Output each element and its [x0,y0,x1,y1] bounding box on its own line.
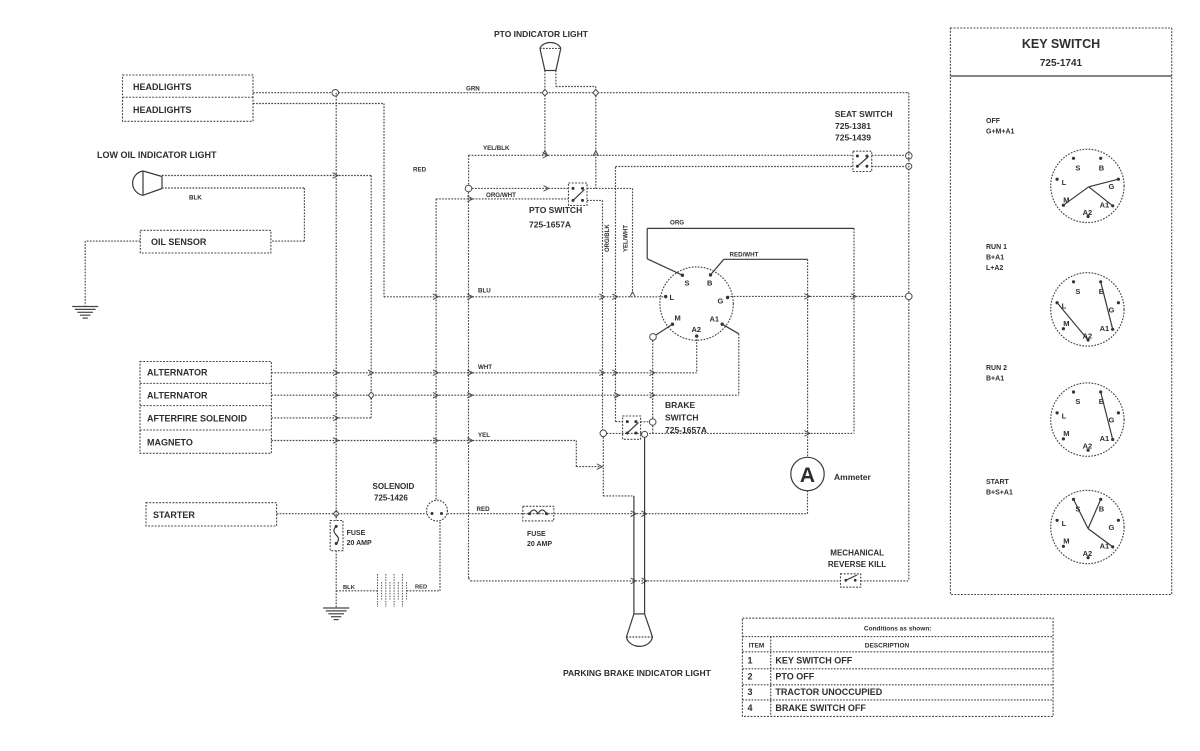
svg-text:M: M [675,314,681,323]
svg-text:GRN: GRN [466,86,480,93]
svg-text:S: S [685,279,690,288]
svg-text:ORG: ORG [670,220,684,227]
svg-text:3: 3 [747,687,752,697]
svg-text:B+S+A1: B+S+A1 [986,490,1013,497]
svg-text:MAGNETO: MAGNETO [147,438,193,448]
svg-text:PARKING BRAKE INDICATOR LIGHT: PARKING BRAKE INDICATOR LIGHT [563,668,712,678]
svg-text:ALTERNATOR: ALTERNATOR [147,391,208,401]
svg-text:RED/WHT: RED/WHT [730,252,759,259]
svg-text:B+A1: B+A1 [986,255,1004,262]
svg-text:G: G [718,297,724,306]
svg-text:FUSE: FUSE [347,530,366,537]
svg-text:PTO SWITCH: PTO SWITCH [529,205,582,215]
svg-text:DESCRIPTION: DESCRIPTION [865,643,910,650]
svg-text:S: S [1075,163,1080,172]
svg-text:725-1439: 725-1439 [835,133,871,143]
svg-text:L+A2: L+A2 [986,265,1003,272]
svg-text:G: G [1108,416,1114,425]
svg-text:MECHANICAL: MECHANICAL [830,549,884,558]
svg-text:Conditions as shown:: Conditions as shown: [864,626,932,633]
svg-text:ORG/WHT: ORG/WHT [486,192,516,199]
svg-text:RED: RED [477,506,491,513]
svg-text:A: A [800,464,815,487]
svg-text:SOLENOID: SOLENOID [373,482,415,491]
svg-text:S: S [1075,287,1080,296]
svg-text:M: M [1063,429,1069,438]
svg-text:A2: A2 [1083,549,1093,558]
svg-text:OIL SENSOR: OIL SENSOR [151,237,207,247]
svg-text:Ammeter: Ammeter [834,472,872,482]
svg-text:20 AMP: 20 AMP [347,540,372,547]
svg-text:B: B [1099,163,1105,172]
svg-text:LOW OIL INDICATOR LIGHT: LOW OIL INDICATOR LIGHT [97,150,217,160]
svg-text:G+M+A1: G+M+A1 [986,129,1015,136]
svg-text:4: 4 [747,703,752,713]
svg-text:RUN 2: RUN 2 [986,365,1007,372]
svg-text:725-1426: 725-1426 [374,494,408,503]
svg-text:RED: RED [415,585,427,591]
svg-text:A2: A2 [692,325,702,334]
svg-text:BLU: BLU [478,288,491,295]
svg-text:YEL: YEL [478,432,490,439]
svg-text:ALTERNATOR: ALTERNATOR [147,368,208,378]
svg-text:S: S [1075,397,1080,406]
svg-text:BLK: BLK [343,585,356,591]
svg-text:OFF: OFF [986,118,1001,125]
svg-text:BLK: BLK [189,195,202,202]
svg-text:A1: A1 [1100,434,1110,443]
svg-text:BRAKE SWITCH OFF: BRAKE SWITCH OFF [775,703,866,713]
svg-text:TRACTOR UNOCCUPIED: TRACTOR UNOCCUPIED [775,687,882,697]
svg-text:SEAT SWITCH: SEAT SWITCH [835,109,893,119]
svg-text:BRAKE: BRAKE [665,400,696,410]
svg-text:725-1381: 725-1381 [835,121,871,131]
svg-text:A1: A1 [710,315,720,324]
svg-text:SWITCH: SWITCH [665,413,699,423]
svg-text:KEY SWITCH: KEY SWITCH [1022,37,1100,51]
svg-text:AFTERFIRE SOLENOID: AFTERFIRE SOLENOID [147,414,248,424]
svg-text:G: G [1108,182,1114,191]
svg-text:REVERSE KILL: REVERSE KILL [828,560,886,569]
svg-text:L: L [1062,178,1067,187]
svg-text:M: M [1063,537,1069,546]
svg-text:YEL/WHT: YEL/WHT [624,225,630,252]
svg-text:725-1657A: 725-1657A [529,220,571,230]
svg-text:HEADLIGHTS: HEADLIGHTS [133,82,192,92]
svg-text:G: G [1108,523,1114,532]
svg-text:START: START [986,479,1010,486]
svg-text:L: L [1062,412,1067,421]
svg-text:B: B [707,279,713,288]
svg-text:HEADLIGHTS: HEADLIGHTS [133,105,192,115]
svg-text:1: 1 [747,656,752,666]
svg-text:WHT: WHT [478,364,492,371]
svg-text:RUN 1: RUN 1 [986,244,1007,251]
svg-text:PTO INDICATOR LIGHT: PTO INDICATOR LIGHT [494,29,589,39]
svg-text:ITEM: ITEM [749,643,765,650]
svg-text:YEL/BLK: YEL/BLK [483,145,510,152]
svg-text:20 AMP: 20 AMP [527,541,552,548]
svg-text:725-1741: 725-1741 [1040,58,1083,69]
svg-text:A2: A2 [1083,208,1093,217]
svg-text:M: M [1063,319,1069,328]
svg-text:L: L [1062,519,1067,528]
svg-text:A1: A1 [1100,324,1110,333]
svg-text:2: 2 [747,672,752,682]
svg-text:A2: A2 [1083,442,1093,451]
svg-text:FUSE: FUSE [527,531,546,538]
svg-text:B: B [1099,505,1105,514]
svg-text:ORG/BLK: ORG/BLK [605,224,611,252]
svg-text:RED: RED [413,167,427,174]
svg-text:KEY SWITCH OFF: KEY SWITCH OFF [775,656,852,666]
svg-text:B+A1: B+A1 [986,376,1004,383]
svg-text:PTO OFF: PTO OFF [775,672,814,682]
svg-text:G: G [1108,305,1114,314]
svg-text:STARTER: STARTER [153,510,195,520]
svg-text:L: L [670,293,675,302]
